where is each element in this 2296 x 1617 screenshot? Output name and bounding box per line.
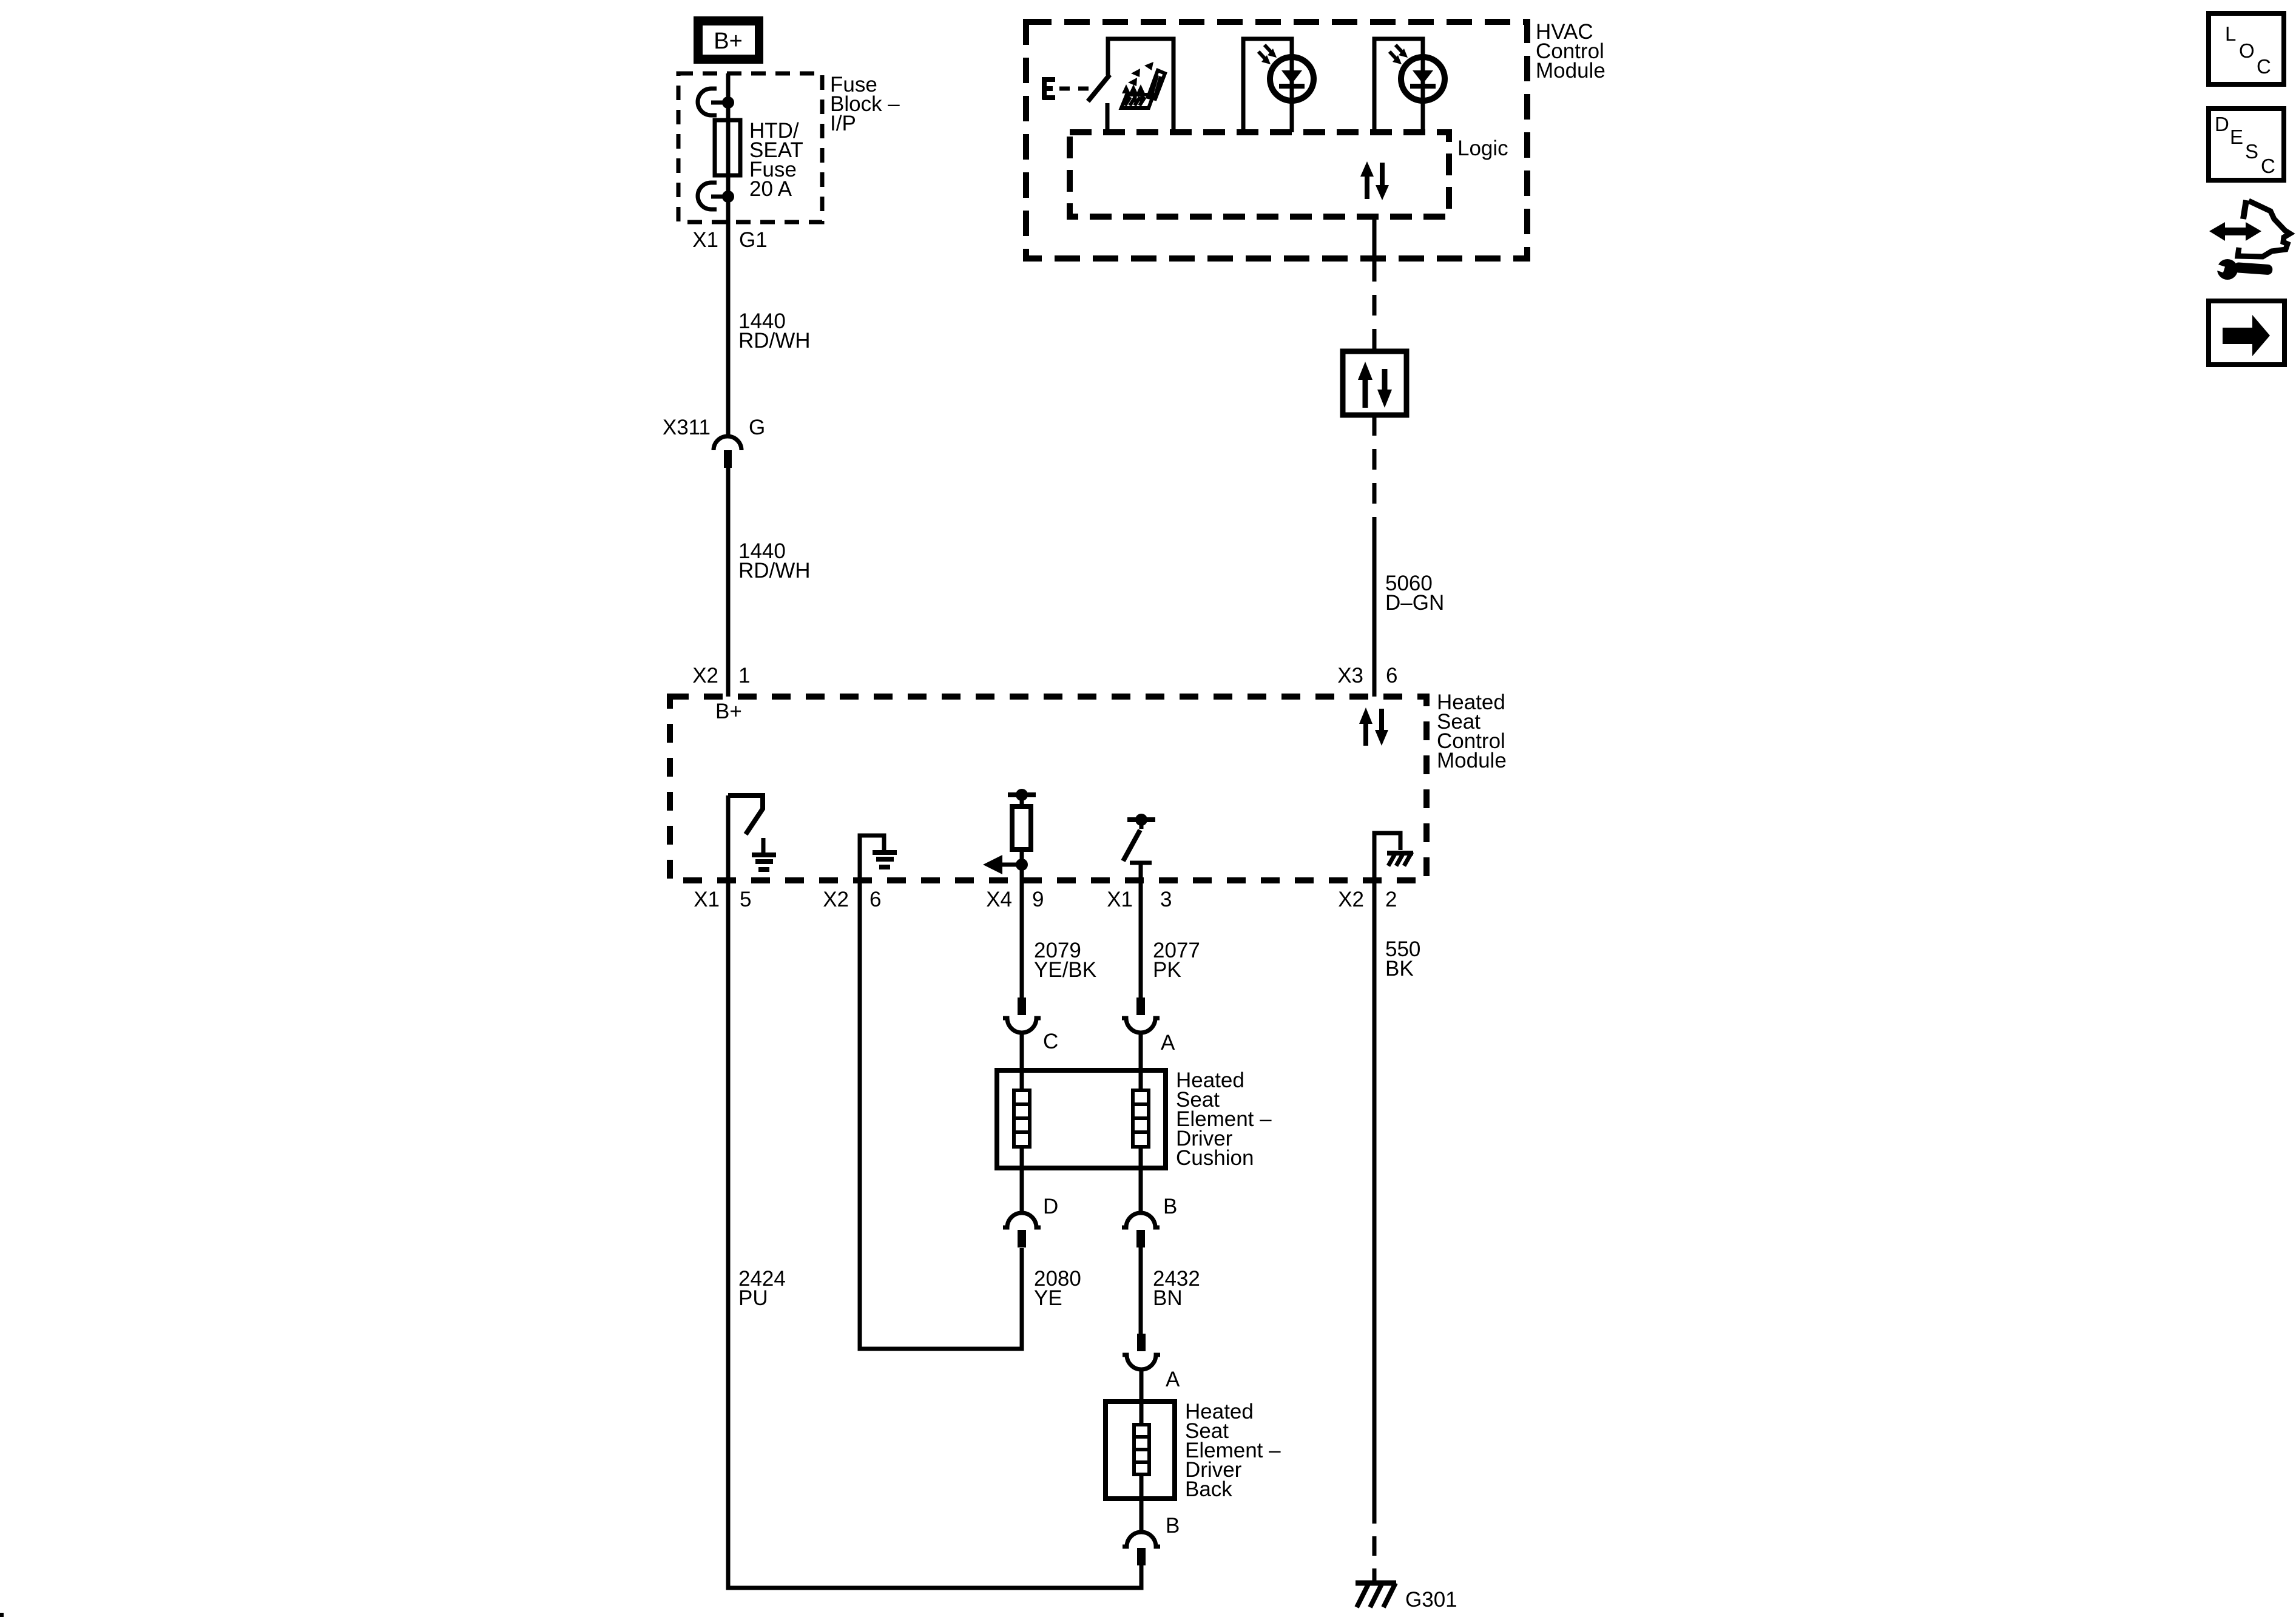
svg-text:2: 2 <box>1385 888 1397 911</box>
label Heated Seat Element - Driver Back <box>1185 1400 1281 1501</box>
connector pin D female terminal <box>1003 1213 1041 1227</box>
connector pin A female terminal <box>1122 1018 1160 1033</box>
svg-text:A: A <box>1161 1031 1175 1055</box>
relay contact feed switch (pin X1-5) <box>728 795 763 834</box>
internal ground leg (pin X2-6) <box>860 836 897 883</box>
wire label 2079 YE/BK <box>1034 939 1096 982</box>
svg-text:20 A: 20 A <box>749 177 792 201</box>
svg-text:X4: X4 <box>986 888 1012 911</box>
internal switch contact (pin X1-3) <box>1123 814 1155 863</box>
pin label X2 1 <box>692 664 750 687</box>
connector pin C female terminal <box>1003 1018 1041 1033</box>
wire label 1440 RD/WH (lower) <box>738 539 811 582</box>
svg-text:A: A <box>1166 1368 1180 1391</box>
wire cushion element down to B <box>1139 1147 1143 1213</box>
svg-text:X2: X2 <box>1338 888 1364 911</box>
page artifact dot <box>0 1613 4 1617</box>
svg-text:6: 6 <box>1386 664 1397 687</box>
svg-text:D: D <box>1043 1195 1058 1218</box>
wire segment 1440 lower run <box>726 468 731 697</box>
svg-text:Back: Back <box>1185 1477 1232 1501</box>
indicator LED1 loop <box>1243 39 1292 132</box>
svg-text:Logic: Logic <box>1457 137 1508 160</box>
serial data arrows inside module <box>1359 707 1388 746</box>
wire C into cushion element <box>1020 1033 1024 1090</box>
svg-text:PK: PK <box>1153 958 1181 982</box>
svg-text:BK: BK <box>1385 957 1414 981</box>
icon heated seat symbol <box>1121 70 1165 108</box>
wire 550 BK ground run <box>1373 833 1377 1504</box>
wire 2079 YE/BK sensor feed <box>1020 849 1024 998</box>
svg-text:B+: B+ <box>715 700 742 723</box>
wire dashed to ground G301 <box>1373 1504 1377 1582</box>
fuse block I/P dashed outline <box>678 73 822 222</box>
connector pin B female terminal <box>1122 1213 1160 1227</box>
logic block dashed outline <box>1070 132 1449 217</box>
svg-text:PU: PU <box>738 1286 768 1310</box>
wire ground leg X2-6 to 2080 junction <box>860 836 1022 1349</box>
svg-text:O: O <box>2239 39 2255 62</box>
svg-text:Module: Module <box>1536 59 1606 83</box>
icon forward arrow box <box>2209 301 2284 365</box>
svg-text:RD/WH: RD/WH <box>738 329 811 353</box>
wire 2077 PK element feed <box>1139 863 1143 998</box>
heating element right (cushion) <box>1133 1090 1149 1147</box>
svg-text:9: 9 <box>1032 888 1044 911</box>
svg-text:YE/BK: YE/BK <box>1034 958 1096 982</box>
heating element left (cushion) <box>1014 1090 1030 1147</box>
serial data link symbol box <box>1343 351 1406 415</box>
svg-text:X2: X2 <box>823 888 849 911</box>
wire dashed link E to switch <box>1059 87 1090 91</box>
svg-text:D–GN: D–GN <box>1385 591 1444 615</box>
node E (switch drive) <box>1042 77 1055 100</box>
wire cushion element down to D <box>1020 1147 1024 1213</box>
wire loop around seat switch <box>1108 39 1173 130</box>
connector pin D male terminal <box>1018 1230 1026 1247</box>
signal ground symbol inside module (left) <box>752 838 776 872</box>
svg-text:B+: B+ <box>714 29 743 54</box>
svg-text:D: D <box>2215 113 2229 135</box>
fuse terminal hook lower <box>698 183 728 209</box>
wire segment logic to module edge <box>1373 217 1377 261</box>
icon LOC legend box <box>2209 13 2284 84</box>
connector pin B male terminal <box>1136 1230 1145 1247</box>
ground G301 chassis symbol <box>1356 1583 1396 1607</box>
pin label X3 6 <box>1337 664 1397 687</box>
connector pin A male terminal <box>1136 998 1145 1015</box>
wire dashed serial data lower <box>1373 415 1377 524</box>
label Heated Seat Element - Driver Cushion <box>1176 1068 1272 1170</box>
svg-text:C: C <box>2261 155 2275 177</box>
pin label X1 5 <box>694 888 751 911</box>
pin label X1 G1 <box>692 228 768 252</box>
switch S1 fixed contact stub <box>1106 103 1110 130</box>
svg-text:X2: X2 <box>692 664 718 687</box>
wire label 2080 YE <box>1034 1267 1081 1310</box>
connector pin B (back) male terminal <box>1137 1548 1146 1565</box>
pin label X1 3 <box>1107 888 1172 911</box>
wire 2432 BN run <box>1139 1247 1143 1334</box>
svg-text:Module: Module <box>1437 749 1507 772</box>
svg-text:RD/WH: RD/WH <box>738 559 811 582</box>
label X311 G <box>663 416 765 439</box>
wire label 2424 PU <box>738 1267 786 1310</box>
node junction at fuse output <box>722 191 734 203</box>
connector pin A (back) male terminal <box>1137 1334 1146 1351</box>
power symbol B+ (battery feed box) <box>694 16 763 64</box>
wire label 2432 BN <box>1153 1267 1200 1310</box>
fuse terminal hook upper <box>698 89 728 115</box>
wire 2424 PU long run with bottom return <box>728 795 1141 1588</box>
label HVAC Control Module <box>1536 20 1606 83</box>
switch S1 heated seat request blade <box>1088 75 1110 101</box>
svg-text:L: L <box>2225 22 2236 45</box>
svg-text:5: 5 <box>740 888 751 911</box>
svg-text:G1: G1 <box>739 228 768 252</box>
svg-text:X1: X1 <box>694 888 720 911</box>
wire label 1440 RD/WH (upper) <box>738 309 811 353</box>
heating element (back) <box>1134 1425 1149 1474</box>
pin label X2 2 <box>1338 888 1397 911</box>
connector pin C male terminal <box>1018 998 1026 1015</box>
wire A into cushion element <box>1139 1033 1143 1090</box>
wire label 2077 PK <box>1153 939 1200 982</box>
wire label 550 BK <box>1385 937 1420 981</box>
pin label X2 6 <box>823 888 881 911</box>
svg-text:Cushion: Cushion <box>1176 1146 1254 1170</box>
node junction at fuse input <box>722 96 734 109</box>
wire label 5060 D-GN <box>1385 572 1444 615</box>
wire segment B+ feed into fuse (1440 upper run) <box>726 73 731 436</box>
indicator LED2 (photo/indicator diode) <box>1389 45 1445 101</box>
svg-text:YE: YE <box>1034 1286 1062 1310</box>
wire back element down to B <box>1140 1474 1144 1532</box>
label Fuse Block - I/P <box>830 73 900 135</box>
svg-text:X3: X3 <box>1337 664 1363 687</box>
svg-text:E: E <box>2230 126 2243 148</box>
wire segment 5060 solid run <box>1373 524 1377 697</box>
icon DESC legend box <box>2209 109 2284 180</box>
svg-text:X1: X1 <box>1107 888 1133 911</box>
value label HTD/SEAT Fuse 20 A <box>749 119 803 201</box>
wire dashed serial data upper <box>1373 261 1377 351</box>
temperature sensor resistor with wiper arrow (pin X4-9) <box>983 789 1036 874</box>
heated seat element driver cushion box <box>997 1070 1166 1168</box>
connector X311 male terminal <box>724 450 732 468</box>
svg-text:3: 3 <box>1160 888 1172 911</box>
svg-text:C: C <box>1043 1030 1058 1053</box>
svg-text:S: S <box>2245 140 2258 163</box>
svg-text:G301: G301 <box>1405 1588 1457 1612</box>
label Heated Seat Control Module <box>1437 690 1507 772</box>
connector pin A (back) female terminal <box>1123 1355 1160 1369</box>
svg-text:X311: X311 <box>663 416 711 439</box>
svg-text:X1: X1 <box>692 228 718 252</box>
fuse HTD/SEAT 20A element <box>715 120 740 175</box>
heated seat control module dashed outline <box>670 697 1427 880</box>
svg-text:B: B <box>1163 1195 1177 1218</box>
svg-text:I/P: I/P <box>830 112 856 135</box>
svg-text:C: C <box>2257 55 2271 78</box>
connector pin B (back) female terminal <box>1123 1532 1160 1547</box>
serial data arrows in logic block <box>1360 161 1389 200</box>
indicator LED2 loop <box>1374 39 1423 132</box>
svg-text:G: G <box>749 416 765 439</box>
svg-text:6: 6 <box>869 888 881 911</box>
icon diagnostic connector with wrench <box>2209 200 2290 280</box>
connector X311 female terminal <box>714 436 741 450</box>
wire into back element <box>1140 1369 1144 1425</box>
svg-text:1: 1 <box>738 664 750 687</box>
HVAC control module dashed outline <box>1026 22 1527 258</box>
svg-text:BN: BN <box>1153 1286 1183 1310</box>
pin label X4 9 <box>986 888 1044 911</box>
indicator LED1 (photo/indicator diode) <box>1258 45 1314 101</box>
heated seat element driver back box <box>1106 1402 1175 1499</box>
internal chassis ground leg (pin X2-2) <box>1374 833 1413 883</box>
svg-text:B: B <box>1166 1514 1180 1538</box>
